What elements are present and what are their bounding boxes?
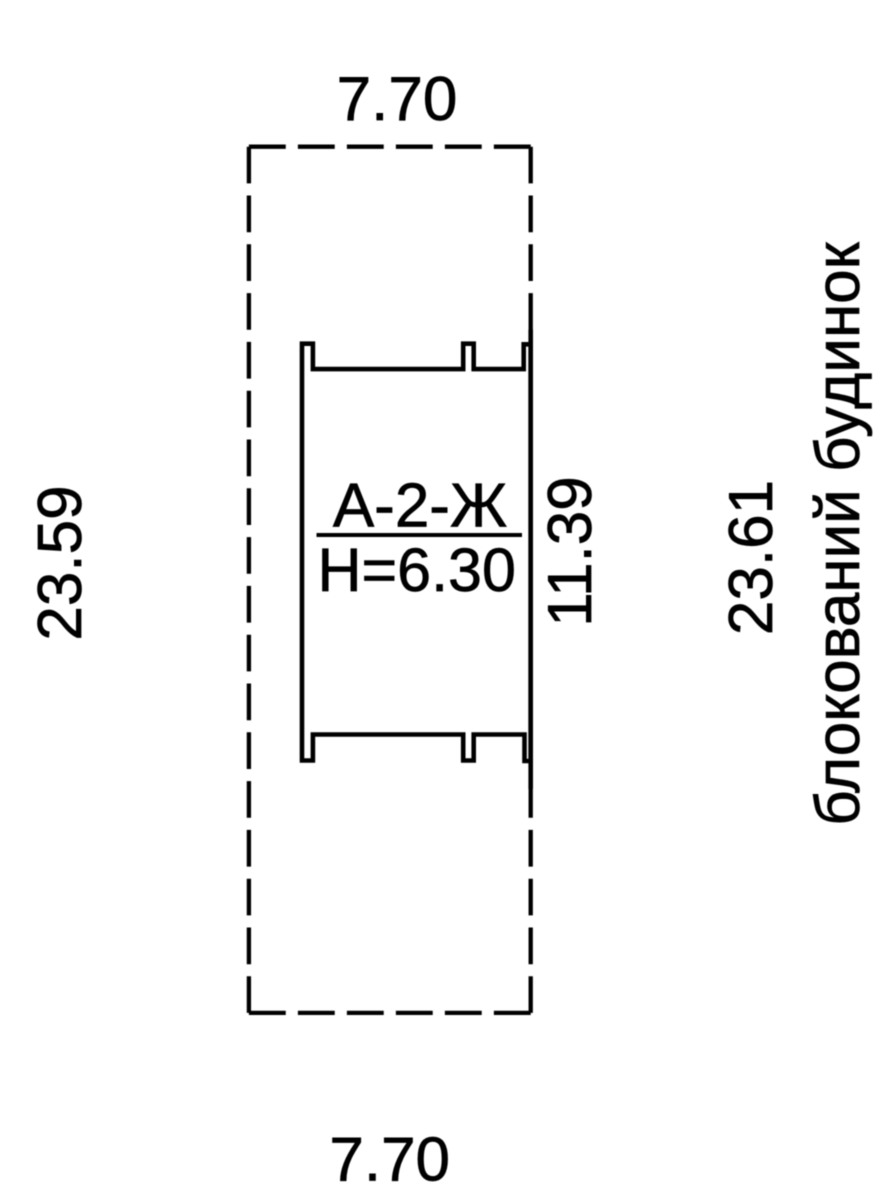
building outline А-2-Ж with pilaster tabs bbox=[302, 344, 531, 761]
building right wall solid segment over boundary bbox=[528, 330, 533, 790]
svg-text:7.70: 7.70 bbox=[329, 1126, 450, 1195]
svg-text:23.61: 23.61 bbox=[717, 480, 786, 635]
plot boundary bottom edge (dashed) bbox=[249, 1011, 531, 1015]
plot boundary right edge (dashed) bbox=[529, 147, 533, 1013]
plot boundary top edge (dashed) bbox=[249, 145, 531, 149]
label separator line bbox=[317, 533, 523, 537]
svg-text:23.59: 23.59 bbox=[26, 485, 95, 640]
svg-text:блокований будинок: блокований будинок bbox=[804, 241, 873, 825]
svg-text:Н=6.30: Н=6.30 bbox=[317, 536, 515, 604]
svg-text:11.39: 11.39 bbox=[536, 476, 605, 627]
svg-text:А-2-Ж: А-2-Ж bbox=[333, 472, 507, 541]
svg-text:7.70: 7.70 bbox=[337, 65, 458, 134]
plot boundary left edge (dashed) bbox=[247, 147, 251, 1013]
